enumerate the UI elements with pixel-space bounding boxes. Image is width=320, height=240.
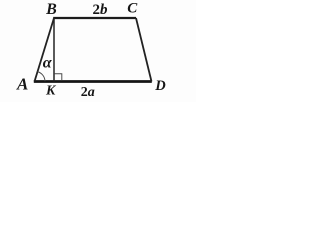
svg-text:C: C [127, 1, 138, 17]
svg-text:K: K [45, 84, 57, 99]
wire height BK [53, 18, 55, 82]
svg-text:D: D [154, 78, 166, 94]
right-angle mark at K [55, 74, 62, 81]
svg-text:α: α [43, 55, 53, 72]
svg-text:A: A [16, 74, 28, 93]
wire right side CD [136, 18, 152, 82]
wire top side BC [53, 17, 136, 19]
svg-text:2b: 2b [93, 2, 109, 18]
wire left side AB [35, 18, 55, 82]
wire bottom side AD [34, 80, 152, 83]
svg-text:B: B [45, 1, 57, 18]
angle arc at A [38, 72, 45, 82]
svg-text:2a: 2a [81, 85, 95, 100]
